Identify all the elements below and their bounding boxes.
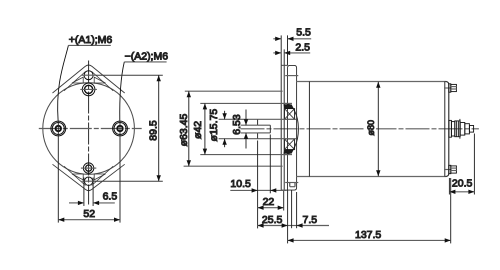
svg-text:25.5: 25.5 [262,214,283,226]
svg-text:ø80: ø80 [366,120,376,136]
front view: top apex hole A1 [82,71,96,80]
dimension 10.5 (slot depth) [230,135,286,229]
side view: bottom seal section (filled) [283,149,293,153]
side view: drive end bell [285,65,298,190]
side view: bottom bearing section [284,139,294,150]
dimension 6.5 (bottom slot width) [69,178,115,207]
side view: middle terminal stud [449,119,474,139]
svg-text:6.5: 6.5 [103,191,118,203]
front view: bottom apex hole A2 [82,177,96,185]
dimension 89.5 (front view height) [95,75,163,181]
front view: bottom tab left cutout [72,174,83,180]
svg-text:137.5: 137.5 [355,229,381,241]
svg-text:5.5: 5.5 [296,27,311,39]
dimension 5.5 (flange total thickness) [273,35,311,65]
side view: shaft with slotted end [258,119,297,138]
front view: horizontal centerline [39,128,142,130]
svg-text:20.5: 20.5 [452,177,473,189]
front view: top tab right cutout [94,77,105,83]
svg-text:52: 52 [83,208,95,220]
side view: top bearing section [284,109,294,120]
side view: horizontal centerline [241,128,479,130]
dimension 2.5 (flange plate thickness) [273,49,310,65]
side view: hub top cap [283,102,292,104]
dimension diameter 63.45 [184,91,283,166]
front view: top mounting tab [53,65,125,93]
dimension 22 [258,191,284,211]
svg-text:ø42: ø42 [192,121,204,139]
dimension 137.5 (overall length) [288,178,451,243]
dimension 52 (bolt hole spacing) [58,121,120,223]
svg-text:22: 22 [263,196,275,208]
leader and label -(A2);M6 [120,62,167,121]
svg-text:−(A2);M6: −(A2);M6 [125,50,169,62]
front view: lower bolt hole [81,163,96,173]
svg-text:7.5: 7.5 [303,214,318,226]
side view: bottom stud bolt [444,165,456,173]
side view: bearing hub arc [285,103,298,154]
dimension 6.53 (slot width) [241,110,258,149]
svg-text:89.5: 89.5 [148,120,160,141]
front view: bottom mounting tab [53,164,125,190]
svg-text:2.5: 2.5 [295,41,310,53]
side view: mounting flange plates [281,65,287,190]
side view: top stud bolt [444,84,456,92]
dimension 20.5 (terminal protrusion) [449,134,474,195]
front view: right bolt hole [113,121,128,136]
front view: flange outer circle [43,83,135,175]
front view: left bolt hole [51,121,66,136]
front view: top tab left cutout [72,77,83,83]
leader and label +(A1);M6 [58,45,111,120]
side view: motor body shell [297,82,449,177]
svg-text:+(A1);M6: +(A1);M6 [69,34,113,46]
side view: top seal section (filled) [283,104,293,108]
front view: upper bolt hole [80,83,97,96]
svg-text:ø63.45: ø63.45 [178,114,190,147]
dimension 7.5 [288,190,329,228]
front view: vertical centerline [88,61,90,205]
dimension diameter 15.75 (shaft) [219,111,258,147]
front view: bottom tab right cutout [94,174,105,180]
dimension diameter 42 [200,103,283,154]
svg-text:6.53: 6.53 [231,114,243,135]
svg-text:ø15.75: ø15.75 [208,109,220,142]
side view: hub bottom cap [283,154,292,156]
svg-text:10.5: 10.5 [230,178,251,190]
dimension 25.5 [258,225,288,227]
dimension diameter 80 (body) [377,82,379,176]
